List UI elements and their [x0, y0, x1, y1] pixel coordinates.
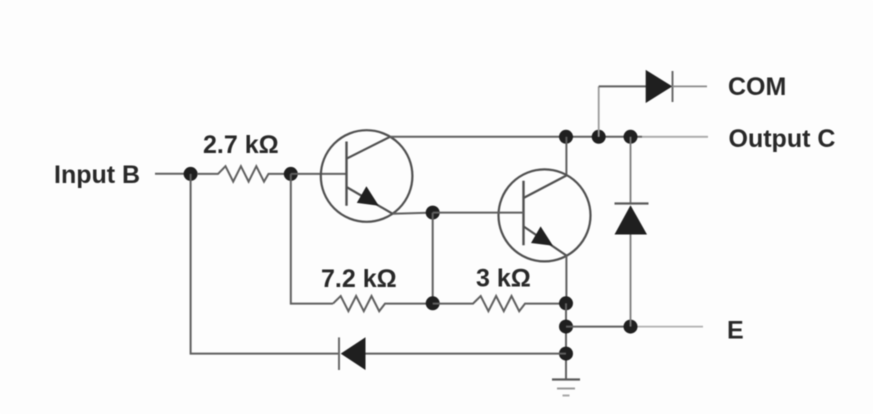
- wire Q2 emitter vertical: [565, 256, 567, 304]
- resistor 2.7 kΩ: [197, 166, 285, 181]
- wire COM branch horizontal: [599, 85, 646, 87]
- node resistor-base junction: [284, 167, 298, 181]
- wire Q2 collector vertical: [565, 137, 567, 176]
- svg-text:Input B: Input B: [54, 161, 140, 189]
- resistor 7.2 kΩ: [333, 296, 426, 311]
- wire clamp diode column bottom: [630, 235, 632, 327]
- node diode bottom junction: [624, 320, 638, 334]
- node Q1 emitter / Q2 base: [426, 206, 440, 220]
- wire collector rail (Output C): [390, 136, 708, 138]
- wire to Q1 base: [291, 173, 347, 175]
- node rail dot 1: [559, 130, 573, 144]
- node input junction: [184, 167, 198, 181]
- transistor Q1: [321, 130, 413, 222]
- diode D3 base clamp: [339, 337, 366, 370]
- wire COM lead: [673, 85, 708, 87]
- wire E lead: [566, 326, 703, 328]
- diode D2 clamp: [615, 204, 649, 235]
- label 3 kΩ: [476, 265, 531, 293]
- node resistor mid junction: [426, 296, 440, 310]
- node rail dot 3: [624, 130, 638, 144]
- label Input B: [54, 161, 140, 189]
- svg-text:7.2 kΩ: 7.2 kΩ: [321, 265, 397, 293]
- ground: [552, 380, 580, 396]
- svg-text:3 kΩ: 3 kΩ: [476, 265, 531, 293]
- transistor Q2: [499, 169, 591, 261]
- wire node to resistor row vertical: [432, 213, 434, 304]
- wire input lead: [155, 173, 186, 175]
- wire input-side left column: [191, 174, 339, 354]
- wire Q1 emitter to node: [393, 213, 433, 214]
- wire Q2 base: [433, 212, 524, 214]
- svg-text:COM: COM: [728, 73, 786, 101]
- svg-text:E: E: [727, 316, 744, 344]
- node bottom row junction: [559, 347, 573, 361]
- node E junction: [559, 320, 573, 334]
- wire clamp diode column top: [630, 137, 632, 204]
- wire bottom row: [366, 353, 567, 355]
- svg-text:Output C: Output C: [729, 125, 836, 153]
- wire base branch vertical (from 2.7k junction): [291, 174, 333, 304]
- node rail dot 2: [592, 130, 606, 144]
- label 7.2 kΩ: [321, 265, 397, 293]
- label COM: [728, 73, 786, 101]
- label Output C: [729, 125, 836, 153]
- svg-text:2.7 kΩ: 2.7 kΩ: [203, 131, 279, 159]
- wire emitter column: [565, 303, 567, 378]
- resistor 3 kΩ: [433, 296, 560, 311]
- wire COM branch vertical: [598, 86, 600, 136]
- label 2.7 kΩ: [203, 131, 279, 159]
- diode D1 COM: [646, 70, 673, 103]
- label E: [727, 316, 744, 344]
- node emitter junction: [559, 296, 573, 310]
